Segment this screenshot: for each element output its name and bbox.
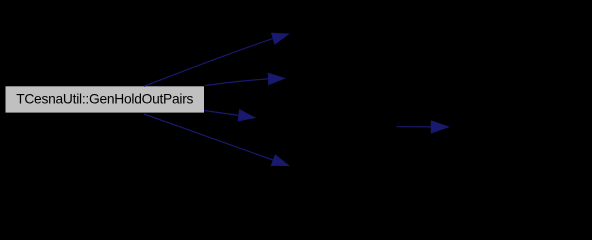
arrowhead edge 1 [272,33,289,44]
arrowhead edge 2 [268,73,284,84]
wire edge 5: callee 3 to nested callee [397,126,437,128]
wire edge 2: GenHoldOutPairs to callee 2 [205,79,276,86]
node TCesnaUtil::GenHoldOutPairs [6,86,205,112]
arrowhead edge 5 [431,121,448,133]
wire edge 3: GenHoldOutPairs to callee 3 [204,111,246,117]
arrowhead edge 4 [271,155,288,166]
arrowhead edge 3 [238,110,255,121]
svg-text:TCesnaUtil::GenHoldOutPairs: TCesnaUtil::GenHoldOutPairs [16,92,193,107]
wire edge 1: GenHoldOutPairs to callee 1 [144,36,280,86]
wire edge 4: GenHoldOutPairs to callee 4 [144,114,280,163]
